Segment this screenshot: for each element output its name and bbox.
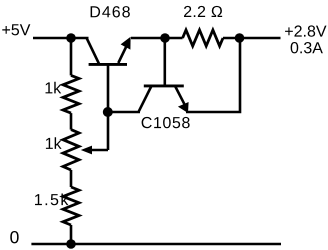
wire 1.5k bottom lead xyxy=(70,225,73,244)
zigzag xyxy=(183,30,223,46)
collector lead of D468 xyxy=(87,38,99,64)
label 1k pot xyxy=(46,137,62,149)
wire pot wiper to base node xyxy=(107,112,110,150)
potentiometer 1k xyxy=(63,130,79,170)
node junction dot D468 base / C1058 collector / wiper xyxy=(103,107,113,117)
left lead xyxy=(165,37,183,40)
transistor Q2 C1058 (NPN current limiter) xyxy=(139,86,189,113)
wire C1058 collector to base node of D468 xyxy=(108,111,140,114)
resistor 2.2 ohm xyxy=(165,30,240,46)
wire +5V rail xyxy=(33,37,89,40)
wire divider top lead xyxy=(70,38,73,75)
base bar of C1058 xyxy=(144,84,184,87)
label 2.2 ohm xyxy=(184,6,222,17)
label +2.8V xyxy=(285,25,326,36)
wire C1058 base lead xyxy=(164,38,167,86)
resistor 1.5k xyxy=(63,187,79,225)
emitter lead of D468 with arrow xyxy=(118,44,127,63)
wiper arrow of potentiometer xyxy=(91,149,108,152)
node junction dot at +5V rail and divider xyxy=(66,33,76,43)
label C1058 xyxy=(142,117,190,128)
node junction dot emitter / C1058 base xyxy=(160,33,170,43)
wire between 1k and pot xyxy=(70,113,73,130)
label 1.5k xyxy=(35,194,68,206)
transistor Q1 D468 (NPN pass transistor) xyxy=(87,37,131,112)
label D468 xyxy=(91,6,130,17)
label +5V xyxy=(2,24,30,35)
base bar of D468 xyxy=(89,63,127,66)
label 0.3A xyxy=(291,42,323,53)
base lead of D468 xyxy=(107,64,110,112)
node junction dot divider to 0V rail xyxy=(66,239,76,249)
right lead xyxy=(223,37,240,40)
wire 0V bottom rail xyxy=(31,243,281,246)
label 1k upper xyxy=(46,82,62,94)
wire output rail xyxy=(240,37,281,40)
wire D468 emitter to 2.2 ohm xyxy=(131,37,165,40)
collector lead of C1058 xyxy=(139,87,151,112)
label 0 (ground rail) xyxy=(10,231,18,243)
emitter lead of C1058 with arrow xyxy=(175,87,184,105)
resistor 1k upper xyxy=(63,75,79,113)
wire C1058 emitter to output node xyxy=(186,38,240,112)
wire between pot and 1.5k xyxy=(70,170,73,187)
node junction dot output xyxy=(235,33,245,43)
